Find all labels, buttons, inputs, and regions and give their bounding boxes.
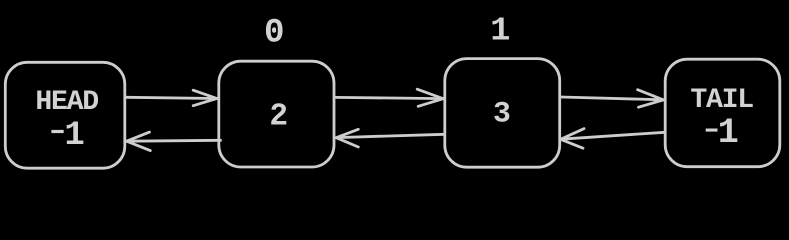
svg-text:TAIL: TAIL: [690, 85, 753, 116]
node HEAD box: [5, 62, 125, 168]
svg-text:1: 1: [718, 113, 739, 153]
value -1 (TAIL): minus dash: [706, 129, 718, 132]
svg-text:1: 1: [490, 12, 510, 50]
value -1 (HEAD): minus dash: [51, 130, 63, 133]
svg-text:2: 2: [269, 100, 288, 135]
arrowhead left at HEAD: [127, 132, 151, 151]
wire TAIL to 3 (prev pointer): [561, 132, 665, 139]
dot of slashed zero: [272, 27, 276, 33]
svg-text:1: 1: [64, 117, 84, 155]
node 3 box: [445, 59, 560, 168]
svg-text:0: 0: [264, 14, 285, 52]
node 2 box: [219, 61, 334, 167]
wire 3 to 2 (prev pointer): [337, 134, 445, 137]
wire HEAD to 2 (next pointer): [126, 97, 217, 98]
wire 2 to 3 (next pointer): [335, 97, 443, 98]
arrowhead left at node 2: [336, 129, 358, 147]
svg-text:HEAD: HEAD: [35, 87, 98, 118]
arrowhead right at node 3: [417, 89, 443, 106]
arrowhead right at TAIL: [638, 90, 664, 108]
arrowhead left at node 3: [561, 129, 584, 149]
wire 3 to TAIL (next pointer): [561, 97, 664, 100]
node TAIL box: [665, 59, 780, 167]
svg-text:3: 3: [493, 97, 511, 131]
wire 2 to HEAD (prev pointer): [127, 139, 221, 143]
arrowhead right at node 2: [193, 90, 217, 106]
